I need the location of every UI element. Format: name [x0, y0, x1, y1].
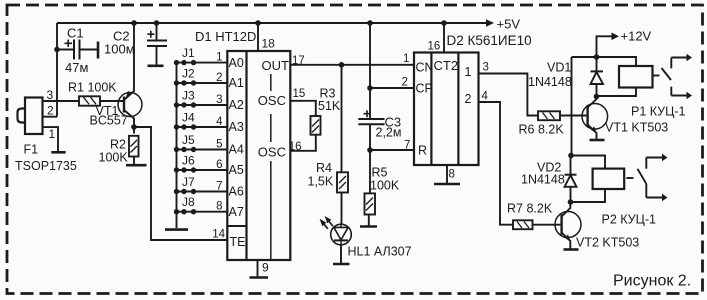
svg-text:8: 8 [449, 169, 455, 181]
svg-text:C1: C1 [67, 26, 84, 41]
svg-text:5: 5 [216, 139, 222, 151]
svg-text:A3: A3 [229, 120, 244, 134]
svg-text:9: 9 [262, 261, 269, 275]
svg-text:6: 6 [216, 159, 222, 171]
svg-text:+12V: +12V [621, 29, 652, 44]
svg-text:4: 4 [216, 116, 223, 128]
svg-text:J2: J2 [182, 67, 195, 81]
svg-text:R1 100K: R1 100K [68, 81, 117, 95]
svg-text:CN: CN [416, 61, 434, 75]
svg-text:OUT: OUT [262, 58, 290, 73]
svg-text:18: 18 [262, 37, 276, 51]
svg-text:P1 КУЦ-1: P1 КУЦ-1 [631, 105, 686, 119]
svg-text:J7: J7 [182, 175, 195, 189]
svg-text:2: 2 [465, 92, 472, 106]
svg-text:R2: R2 [110, 138, 126, 152]
svg-text:17: 17 [292, 55, 305, 67]
svg-text:Рисунок 2.: Рисунок 2. [613, 273, 691, 290]
svg-text:R: R [418, 144, 427, 158]
svg-text:J6: J6 [182, 154, 195, 168]
svg-text:OSC: OSC [258, 93, 286, 108]
svg-text:16: 16 [428, 41, 441, 53]
svg-text:100K: 100K [370, 179, 400, 193]
svg-text:R4: R4 [316, 161, 332, 175]
svg-text:CP: CP [416, 82, 433, 96]
svg-text:J1: J1 [182, 46, 195, 60]
svg-text:7: 7 [216, 181, 222, 193]
svg-text:F1: F1 [24, 143, 39, 157]
svg-text:14: 14 [212, 229, 225, 241]
svg-text:J5: J5 [182, 133, 195, 147]
svg-text:A0: A0 [229, 56, 244, 70]
svg-text:1: 1 [465, 65, 472, 79]
svg-text:J3: J3 [182, 89, 195, 103]
svg-text:16: 16 [289, 141, 302, 153]
svg-text:2,2м: 2,2м [376, 126, 402, 140]
svg-text:1: 1 [216, 52, 222, 64]
svg-text:R5: R5 [372, 166, 388, 180]
svg-text:VT2 KТ503: VT2 KТ503 [576, 236, 639, 250]
svg-text:D2 К561ИЕ10: D2 К561ИЕ10 [447, 33, 532, 48]
svg-text:VT1 KT503: VT1 KT503 [605, 121, 668, 135]
svg-text:A2: A2 [229, 98, 244, 112]
svg-text:A4: A4 [229, 143, 244, 157]
svg-text:1N4148: 1N4148 [521, 173, 565, 187]
svg-text:2: 2 [47, 104, 54, 118]
svg-text:VD1: VD1 [547, 61, 571, 75]
svg-text:D1 HT12D: D1 HT12D [195, 29, 256, 44]
svg-text:2: 2 [402, 77, 408, 89]
svg-text:47м: 47м [65, 60, 88, 75]
svg-text:R7 8.2K: R7 8.2K [507, 202, 553, 216]
svg-text:OSC: OSC [258, 144, 286, 159]
svg-text:4: 4 [482, 91, 489, 103]
svg-text:1: 1 [49, 127, 56, 141]
svg-text:HL1 АЛ307: HL1 АЛ307 [348, 245, 412, 259]
svg-text:1: 1 [403, 53, 409, 65]
svg-text:P2 КУЦ-1: P2 КУЦ-1 [602, 213, 657, 227]
svg-text:15: 15 [293, 88, 306, 100]
svg-text:A7: A7 [229, 205, 244, 219]
svg-text:CT2: CT2 [434, 58, 459, 73]
svg-text:3: 3 [47, 88, 54, 102]
svg-text:1,5K: 1,5K [308, 175, 334, 189]
svg-text:3: 3 [216, 94, 222, 106]
svg-text:A5: A5 [229, 163, 244, 177]
svg-text:A6: A6 [229, 185, 244, 199]
svg-text:+5V: +5V [497, 17, 521, 32]
svg-text:TSOP1735: TSOP1735 [15, 159, 77, 173]
svg-text:1N4148: 1N4148 [528, 75, 572, 89]
svg-text:J4: J4 [182, 111, 195, 125]
svg-text:2: 2 [216, 72, 222, 84]
svg-text:100м: 100м [104, 42, 135, 57]
svg-text:7: 7 [404, 140, 410, 152]
svg-text:3: 3 [483, 62, 489, 74]
svg-text:51K: 51K [318, 99, 341, 113]
svg-text:TE: TE [230, 235, 246, 249]
svg-text:A1: A1 [229, 76, 244, 90]
svg-text:8: 8 [216, 201, 222, 213]
svg-text:BC557: BC557 [90, 114, 128, 128]
svg-text:R6 8.2K: R6 8.2K [519, 123, 565, 137]
svg-text:100K: 100K [99, 151, 129, 165]
svg-text:J8: J8 [182, 195, 195, 209]
